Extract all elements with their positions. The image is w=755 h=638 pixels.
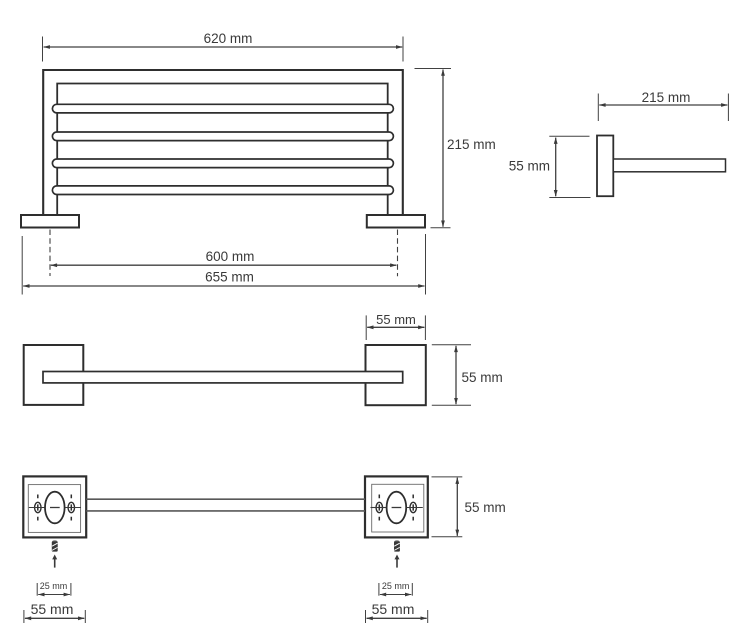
svg-text:55 mm: 55 mm <box>462 370 503 385</box>
right square plate (middle view) <box>366 345 426 405</box>
center dashed line right foot <box>397 230 399 277</box>
dimension 600 mm line <box>51 264 397 266</box>
dimension 620 mm extension lines <box>43 37 404 62</box>
shelf frame outer outline <box>43 70 403 215</box>
connecting bar bottom edge (bottom view) <box>86 510 365 512</box>
svg-text:25 mm: 25 mm <box>40 581 68 591</box>
right plate center oval dash <box>392 507 402 509</box>
dimension 55 mm (bottom left) line <box>25 617 84 619</box>
left plate center oval <box>45 492 65 524</box>
left square plate (middle view) <box>24 345 84 405</box>
right up arrow <box>395 555 400 568</box>
wall plate (side view) <box>597 136 613 197</box>
shelf arm (side view) <box>613 159 725 172</box>
dimension 655 mm extension lines <box>22 234 425 295</box>
towel bar 3 (front view) <box>52 159 393 168</box>
left plate horizontal centerline left segment <box>29 507 45 509</box>
right hole right vertical dashed line <box>412 495 414 521</box>
left mounting plate outer square <box>23 476 86 537</box>
svg-text:55 mm: 55 mm <box>372 601 415 617</box>
center dashed line left foot <box>49 230 51 277</box>
left hole left vertical dashed line <box>37 495 39 521</box>
dimension 25 mm (left) tick lines <box>37 583 71 596</box>
dimension 215 mm (front view) tick lines <box>415 69 452 228</box>
towel bar (middle view) <box>43 372 403 383</box>
dimension 55 mm (side view) tick lines <box>549 136 590 197</box>
dimension 55 mm (side view) line <box>555 138 557 197</box>
dimension 55 mm (bottom left) tick lines <box>24 610 85 623</box>
towel bar 2 (front view) <box>52 132 393 141</box>
svg-text:600 mm: 600 mm <box>206 249 255 264</box>
right plate screw hole left <box>376 502 382 512</box>
svg-text:55 mm: 55 mm <box>465 500 506 515</box>
right mounting plate inner square <box>372 484 424 532</box>
svg-text:55 mm: 55 mm <box>509 158 550 173</box>
right wall-mount foot (front view) <box>367 215 425 228</box>
right hole left vertical dashed line <box>378 495 380 521</box>
svg-text:620 mm: 620 mm <box>204 31 253 46</box>
left mounting plate inner square <box>28 485 80 533</box>
dimension 215 mm (side view) line <box>599 104 727 106</box>
dimension 620 mm line <box>44 46 403 48</box>
svg-text:655 mm: 655 mm <box>205 269 254 284</box>
right plate center oval <box>387 492 407 524</box>
dimension 215 mm (front view) line <box>442 70 444 227</box>
dimension 55 mm (bottom view right) tick lines <box>432 477 463 537</box>
dimension 25 mm (left) line <box>38 594 70 596</box>
dimension 655 mm line <box>23 285 424 287</box>
svg-text:55 mm: 55 mm <box>376 312 416 327</box>
svg-text:55 mm: 55 mm <box>31 601 74 617</box>
svg-text:215 mm: 215 mm <box>447 137 496 152</box>
dimension 25 mm (right) tick lines <box>379 583 412 596</box>
right wall anchor screw (hatched) <box>394 540 400 552</box>
svg-text:25 mm: 25 mm <box>382 581 410 591</box>
towel bar 1 (front view) <box>52 104 393 113</box>
towel bar 4 (front view) <box>52 186 393 195</box>
right mounting plate outer square <box>365 476 428 537</box>
dimension 55 mm (bottom right) tick lines <box>366 610 428 623</box>
dimension 55 mm (middle right) line <box>455 346 457 404</box>
left wall-mount foot (front view) <box>21 215 79 228</box>
left plate screw hole left <box>35 502 41 512</box>
left plate center oval dash <box>50 507 60 509</box>
dimension 55 mm (middle top) extension lines <box>366 315 425 340</box>
left hole right vertical dashed line <box>70 495 72 521</box>
left plate screw hole right <box>68 502 74 512</box>
right plate screw hole right <box>410 502 416 512</box>
left wall anchor screw (hatched) <box>52 540 58 552</box>
right plate horizontal centerline right segment <box>406 507 422 509</box>
dimension 25 mm (right) line <box>380 594 411 596</box>
left plate horizontal centerline right segment <box>65 507 81 509</box>
dimension 55 mm (middle top) line <box>367 326 424 328</box>
shelf frame inner outline <box>57 84 388 216</box>
dimension 55 mm (middle right) tick lines <box>432 345 471 405</box>
dimension 55 mm (bottom right) line <box>367 617 427 619</box>
connecting bar top edge (bottom view) <box>86 498 365 500</box>
dimension 215 mm (side view) extension lines <box>598 94 728 122</box>
dimension 55 mm (bottom view right) line <box>456 478 458 536</box>
left up arrow <box>52 555 57 568</box>
svg-text:215 mm: 215 mm <box>642 90 691 105</box>
right plate horizontal centerline left segment <box>371 507 387 509</box>
